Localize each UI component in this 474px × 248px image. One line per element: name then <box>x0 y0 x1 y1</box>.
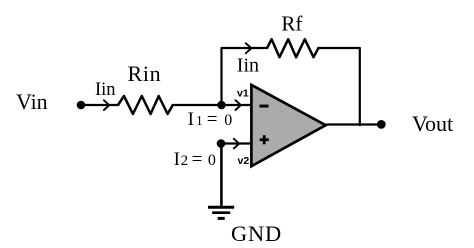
svg-text:Iin: Iin <box>95 80 116 100</box>
svg-text:Iin: Iin <box>237 54 259 76</box>
svg-text:v1: v1 <box>237 88 249 100</box>
svg-text:I2=0: I2=0 <box>174 149 216 170</box>
svg-text:Rin: Rin <box>128 61 162 86</box>
svg-text:Vin: Vin <box>16 89 48 114</box>
svg-text:Vout: Vout <box>412 111 453 136</box>
svg-text:v2: v2 <box>238 155 250 167</box>
svg-text:GND: GND <box>231 221 282 246</box>
svg-text:Rf: Rf <box>281 11 302 35</box>
